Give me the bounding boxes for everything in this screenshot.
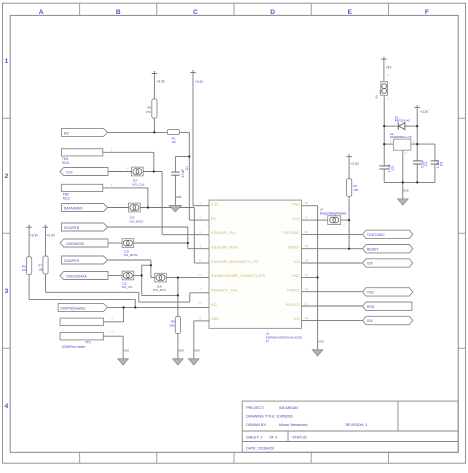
svg-text:11: 11 [305, 302, 308, 306]
jumper J4 DeepSleepReset [328, 216, 341, 225]
capacitor C1 [171, 172, 179, 175]
svg-text:18: 18 [305, 201, 309, 205]
port flag EN [62, 128, 108, 136]
svg-text:GND: GND [124, 350, 130, 353]
svg-text:+3.3V: +3.3V [195, 80, 204, 84]
svg-text:+5V: +5V [386, 65, 393, 69]
svg-text:IO5: IO5 [367, 262, 373, 266]
wire IO15/RTS net to jumper J1B [108, 259, 151, 261]
wire pin 10 to IO4 flag [302, 319, 363, 321]
svg-text:IO12/HSPI_MISO/UART0_CTS: IO12/HSPI_MISO/UART0_CTS [211, 260, 259, 264]
svg-text:16: 16 [305, 230, 309, 234]
fuse F1 [381, 82, 388, 96]
jumper J1F NO_CLK [132, 167, 144, 176]
svg-text:RXD/IO3: RXD/IO3 [286, 303, 300, 307]
svg-text:EN: EN [211, 217, 216, 221]
wire pin 12 to TXD flag [302, 291, 363, 293]
wire IO13/STB net to pin 4 [108, 226, 188, 228]
svg-text:10K: 10K [169, 323, 174, 327]
wire IO0 net to pin 8 [108, 306, 209, 308]
wire pin 13 GND stub [302, 276, 318, 278]
svg-text:IO14/HSPI_CLK: IO14/HSPI_CLK [211, 231, 236, 235]
wire pin 15 to RESET flag [302, 248, 363, 250]
junction EN/R2 [153, 131, 155, 133]
junction MISO/TM2 [147, 206, 149, 208]
wire IO15 node to R8 [177, 278, 179, 317]
svg-text:ESP8266-WROOM-02-ACDE: ESP8266-WROOM-02-ACDE [266, 336, 302, 340]
svg-text:C4: C4 [424, 162, 428, 166]
wire TM1 to CLK net [103, 151, 154, 153]
wire EN net [108, 131, 168, 133]
svg-text:IO0/Firm write: IO0/Firm write [62, 345, 85, 349]
svg-text:2: 2 [5, 173, 9, 180]
svg-text:+3.3V: +3.3V [156, 79, 165, 83]
wire CS net [108, 275, 122, 277]
wire +3.3V rail at PSU [416, 108, 418, 161]
port flag TXD [363, 288, 413, 296]
port flag IO5 [363, 259, 413, 267]
svg-text:47K: 47K [146, 110, 151, 114]
svg-text:4.7uF: 4.7uF [181, 169, 185, 177]
port flag TOUT/ADC [363, 230, 413, 238]
svg-text:17: 17 [305, 215, 309, 219]
wire EN RC node to C1 [175, 156, 189, 158]
resistor R1 [167, 130, 179, 135]
svg-text:RB751S-40: RB751S-40 [395, 119, 410, 123]
ground at R8 [173, 359, 184, 365]
svg-text:GND: GND [292, 202, 300, 206]
power +3.3V at pin 1 [190, 70, 195, 72]
svg-text:GND: GND [403, 190, 409, 193]
power +3.3V at PSU output [415, 105, 420, 107]
svg-text:C: C [193, 9, 198, 16]
wire pin 11 to RXD flag [302, 305, 365, 307]
wire TP1 to IO0 net [103, 321, 123, 323]
junction EN/C1 [188, 155, 190, 157]
wire +5V to fuse [383, 60, 385, 81]
svg-text:IO4: IO4 [294, 317, 300, 321]
test pad TP2 [60, 333, 103, 340]
wire TM2 to MISO net [103, 187, 148, 189]
port flag IO15/RTS [62, 256, 108, 264]
wire PSU ground rail [384, 181, 435, 183]
svg-text:10K: 10K [38, 267, 43, 271]
port flag RESET [363, 245, 413, 253]
svg-text:4.7uF: 4.7uF [388, 164, 392, 172]
capacitor C5 [431, 161, 439, 164]
svg-text:JTG_RTS: JTG_RTS [153, 288, 166, 292]
port flag CMD/MOSI [60, 239, 108, 247]
svg-text:GND: GND [178, 350, 184, 353]
wire jumper J1B to pin 6 [167, 277, 210, 279]
port flag RXD [363, 302, 412, 310]
svg-text:15: 15 [305, 244, 309, 248]
wire R3 pullup to RESET [348, 158, 350, 179]
svg-text:C3: C3 [391, 166, 395, 170]
wire U2 GND pin down [402, 150, 404, 199]
svg-text:F: F [425, 9, 429, 16]
resistor R3 [347, 179, 352, 197]
svg-text:GND: GND [176, 196, 182, 199]
junction RESET/R3 [348, 248, 350, 250]
regulator U2 [394, 139, 411, 150]
svg-text:RESET: RESET [288, 245, 299, 249]
svg-text:IO15/RTS: IO15/RTS [64, 259, 80, 263]
ground at PSU [398, 199, 409, 205]
svg-text:GND: GND [211, 317, 219, 321]
svg-text:02: 02 [266, 339, 270, 343]
svg-text:10K: 10K [353, 188, 358, 192]
svg-text:GND: GND [292, 274, 300, 278]
wire DATA/MISO net to pin 5 [108, 207, 129, 209]
test pad TP1 [60, 318, 103, 325]
svg-text:TXD: TXD [367, 291, 374, 295]
port flag IO13/STB [62, 223, 108, 231]
svg-text:WA-MIKAN: WA-MIKAN [279, 406, 298, 410]
IC U1 ESP8266-WROOM-02 body [209, 200, 302, 328]
wire R7 pullup rail to pin 7 IO2 [45, 228, 47, 256]
junction IO0/R6 [134, 306, 136, 308]
wire R6 pullup rail to IO0 [28, 228, 30, 257]
svg-text:DRAWN BY:: DRAWN BY: [246, 423, 267, 427]
wire CLK net to pin 3 [108, 171, 131, 173]
svg-text:PROJECT:: PROJECT: [246, 406, 264, 410]
resistor R2 [152, 99, 157, 118]
svg-text:14: 14 [305, 259, 309, 263]
svg-text:TOUT/ADC: TOUT/ADC [367, 233, 385, 237]
svg-text:GND: GND [194, 350, 200, 353]
wire fuse to VIN node [383, 96, 385, 166]
wire CMD/MOSI net [108, 242, 122, 244]
junction 3V3/D1 [416, 125, 418, 127]
junction VIN/U2 [383, 143, 385, 145]
svg-text:IO0/FW(rewrite): IO0/FW(rewrite) [61, 307, 86, 311]
diode D1 [398, 123, 405, 130]
svg-text:10: 10 [305, 316, 309, 320]
resistor R6 [27, 257, 32, 275]
junction MOSI/STB [187, 242, 189, 244]
ground at pin 9 [189, 359, 200, 365]
wire pin 14 to IO5 flag [302, 262, 363, 264]
svg-text:DRAWING TITLE: ESP8266: DRAWING TITLE: ESP8266 [246, 415, 292, 419]
wire pin 18 GND rail [302, 205, 318, 207]
svg-text:IO4: IO4 [367, 319, 373, 323]
junction PSU gnd rail [402, 181, 404, 183]
junction 3V3/VOUT [416, 143, 418, 145]
svg-text:DATA/MISO: DATA/MISO [64, 207, 83, 211]
svg-text:STATUS:: STATUS: [292, 436, 307, 440]
port flag DATA/MISO [62, 204, 108, 212]
svg-text:SHEET: 1: SHEET: 1 [246, 436, 262, 440]
junction IO15/R8 [177, 277, 179, 279]
wire +3.3V to pin 1 [192, 73, 194, 206]
resistor R7 [43, 256, 48, 274]
svg-text:3.3V: 3.3V [211, 202, 219, 206]
svg-text:+3.3V: +3.3V [46, 233, 55, 237]
svg-text:A: A [39, 9, 44, 16]
port flag CLK [60, 168, 108, 176]
svg-text:C1: C1 [185, 166, 189, 170]
svg-text:F1: F1 [378, 90, 382, 94]
wire pin 16 to TOUT/ADC flag [302, 233, 363, 235]
wire U2 VOUT to C5 branch [411, 143, 435, 145]
svg-text:IO15/MTDO/HSPI_CS/UART0_RTS: IO15/MTDO/HSPI_CS/UART0_RTS [211, 274, 266, 278]
svg-text:IO13/HSPI_MOSI: IO13/HSPI_MOSI [211, 245, 238, 249]
port flag IO0/FW(rewrite) [58, 303, 108, 311]
ground at TP2 [118, 359, 129, 365]
title block [242, 401, 458, 452]
svg-text:TOUT/ADC: TOUT/ADC [282, 231, 300, 235]
svg-text:Minao Yamamoto: Minao Yamamoto [279, 423, 308, 427]
svg-text:10K: 10K [22, 268, 27, 272]
junction VIN/D1 [383, 125, 385, 127]
wire pin 9 GND [194, 320, 209, 322]
test pad TM2 [61, 184, 102, 191]
ground at pin 13/18 rail [312, 350, 323, 356]
capacitor C3 [379, 166, 389, 169]
svg-text:OF 3: OF 3 [269, 436, 277, 440]
svg-text:U1: U1 [266, 331, 270, 335]
jumper J1B JTG_RTS [155, 273, 167, 282]
junction RESET/J4 [348, 219, 350, 221]
power +5V input [381, 57, 386, 59]
svg-text:TP1: TP1 [85, 341, 91, 345]
junction C4 gnd [416, 181, 418, 183]
svg-text:4.7uF: 4.7uF [436, 160, 440, 168]
svg-text:IO16: IO16 [292, 217, 299, 221]
svg-text:CLK: CLK [66, 171, 73, 175]
junction CS out [141, 274, 143, 276]
svg-text:IO2/UART1_TXD: IO2/UART1_TXD [211, 289, 238, 293]
jumper J1E NO_MISO [129, 203, 141, 212]
resistor R8 [175, 317, 180, 334]
wire pin 17 IO16 to jumper J4 [302, 219, 329, 221]
svg-text:C5: C5 [440, 162, 444, 166]
svg-text:RXD: RXD [367, 305, 375, 309]
wire diode D1 row [384, 125, 398, 127]
power +3.3V at R6 [26, 225, 31, 227]
power +3.3V at R2 [152, 71, 157, 73]
jumper J1C NO_CS [122, 271, 134, 280]
svg-text:+3.3V: +3.3V [420, 110, 429, 114]
svg-text:GND: GND [318, 341, 324, 344]
power +3.3V at R7 [43, 225, 48, 227]
svg-text:NJM2845DL1-03: NJM2845DL1-03 [390, 135, 412, 139]
svg-text:NO_CS: NO_CS [122, 285, 132, 289]
svg-text:1: 1 [5, 58, 9, 65]
svg-text:3: 3 [5, 288, 9, 295]
svg-text:NO_MOSI: NO_MOSI [124, 253, 138, 257]
junction RTS/CS [150, 264, 152, 266]
svg-text:CMD/MOSI: CMD/MOSI [66, 242, 84, 246]
svg-text:NO_MISO: NO_MISO [130, 219, 145, 223]
svg-text:4: 4 [5, 403, 9, 410]
svg-text:TXD/IO1: TXD/IO1 [286, 289, 299, 293]
port flag CN/CS/DATA [60, 272, 108, 280]
svg-text:B: B [116, 9, 121, 16]
junction CLK/TM1 [153, 170, 155, 172]
svg-text:+3.3V: +3.3V [30, 233, 39, 237]
svg-text:RESET: RESET [367, 247, 380, 251]
svg-text:0.1uF: 0.1uF [421, 160, 425, 168]
wire +3.3V to R2 [153, 74, 155, 99]
port flag IO4 [363, 316, 413, 324]
test pad TM1 [61, 149, 102, 156]
svg-text:IO12: IO12 [63, 196, 70, 200]
svg-text:IO14: IO14 [62, 161, 69, 165]
jumper J1D NO_MOSI [122, 239, 134, 248]
junction IO0/TP1 [122, 306, 124, 308]
svg-text:E: E [348, 9, 353, 16]
wire VIN to U2 [384, 143, 393, 145]
svg-text:EN: EN [64, 132, 69, 136]
svg-text:DATE: 2016/4/20: DATE: 2016/4/20 [246, 446, 274, 450]
svg-text:13: 13 [305, 273, 309, 277]
svg-text:IO5: IO5 [294, 260, 300, 264]
svg-text:IO13/STB: IO13/STB [64, 226, 80, 230]
svg-text:NO_CLK: NO_CLK [133, 182, 145, 186]
capacitor C4 [413, 161, 421, 164]
power +3.3V at R3 [346, 154, 351, 156]
junction GND rail pin13 [317, 276, 319, 278]
junction R8 top [177, 294, 179, 296]
svg-text:REVISION: 1: REVISION: 1 [346, 423, 368, 427]
svg-text:1M: 1M [171, 140, 176, 144]
svg-text:12: 12 [305, 287, 309, 291]
wire TP2 to ground [103, 335, 123, 337]
svg-text:D: D [270, 9, 275, 16]
svg-text:IO0: IO0 [211, 303, 217, 307]
ground at C1 [169, 205, 181, 211]
svg-text:+3.3V: +3.3V [350, 162, 359, 166]
svg-text:CN/CS/DATA: CN/CS/DATA [66, 275, 87, 279]
